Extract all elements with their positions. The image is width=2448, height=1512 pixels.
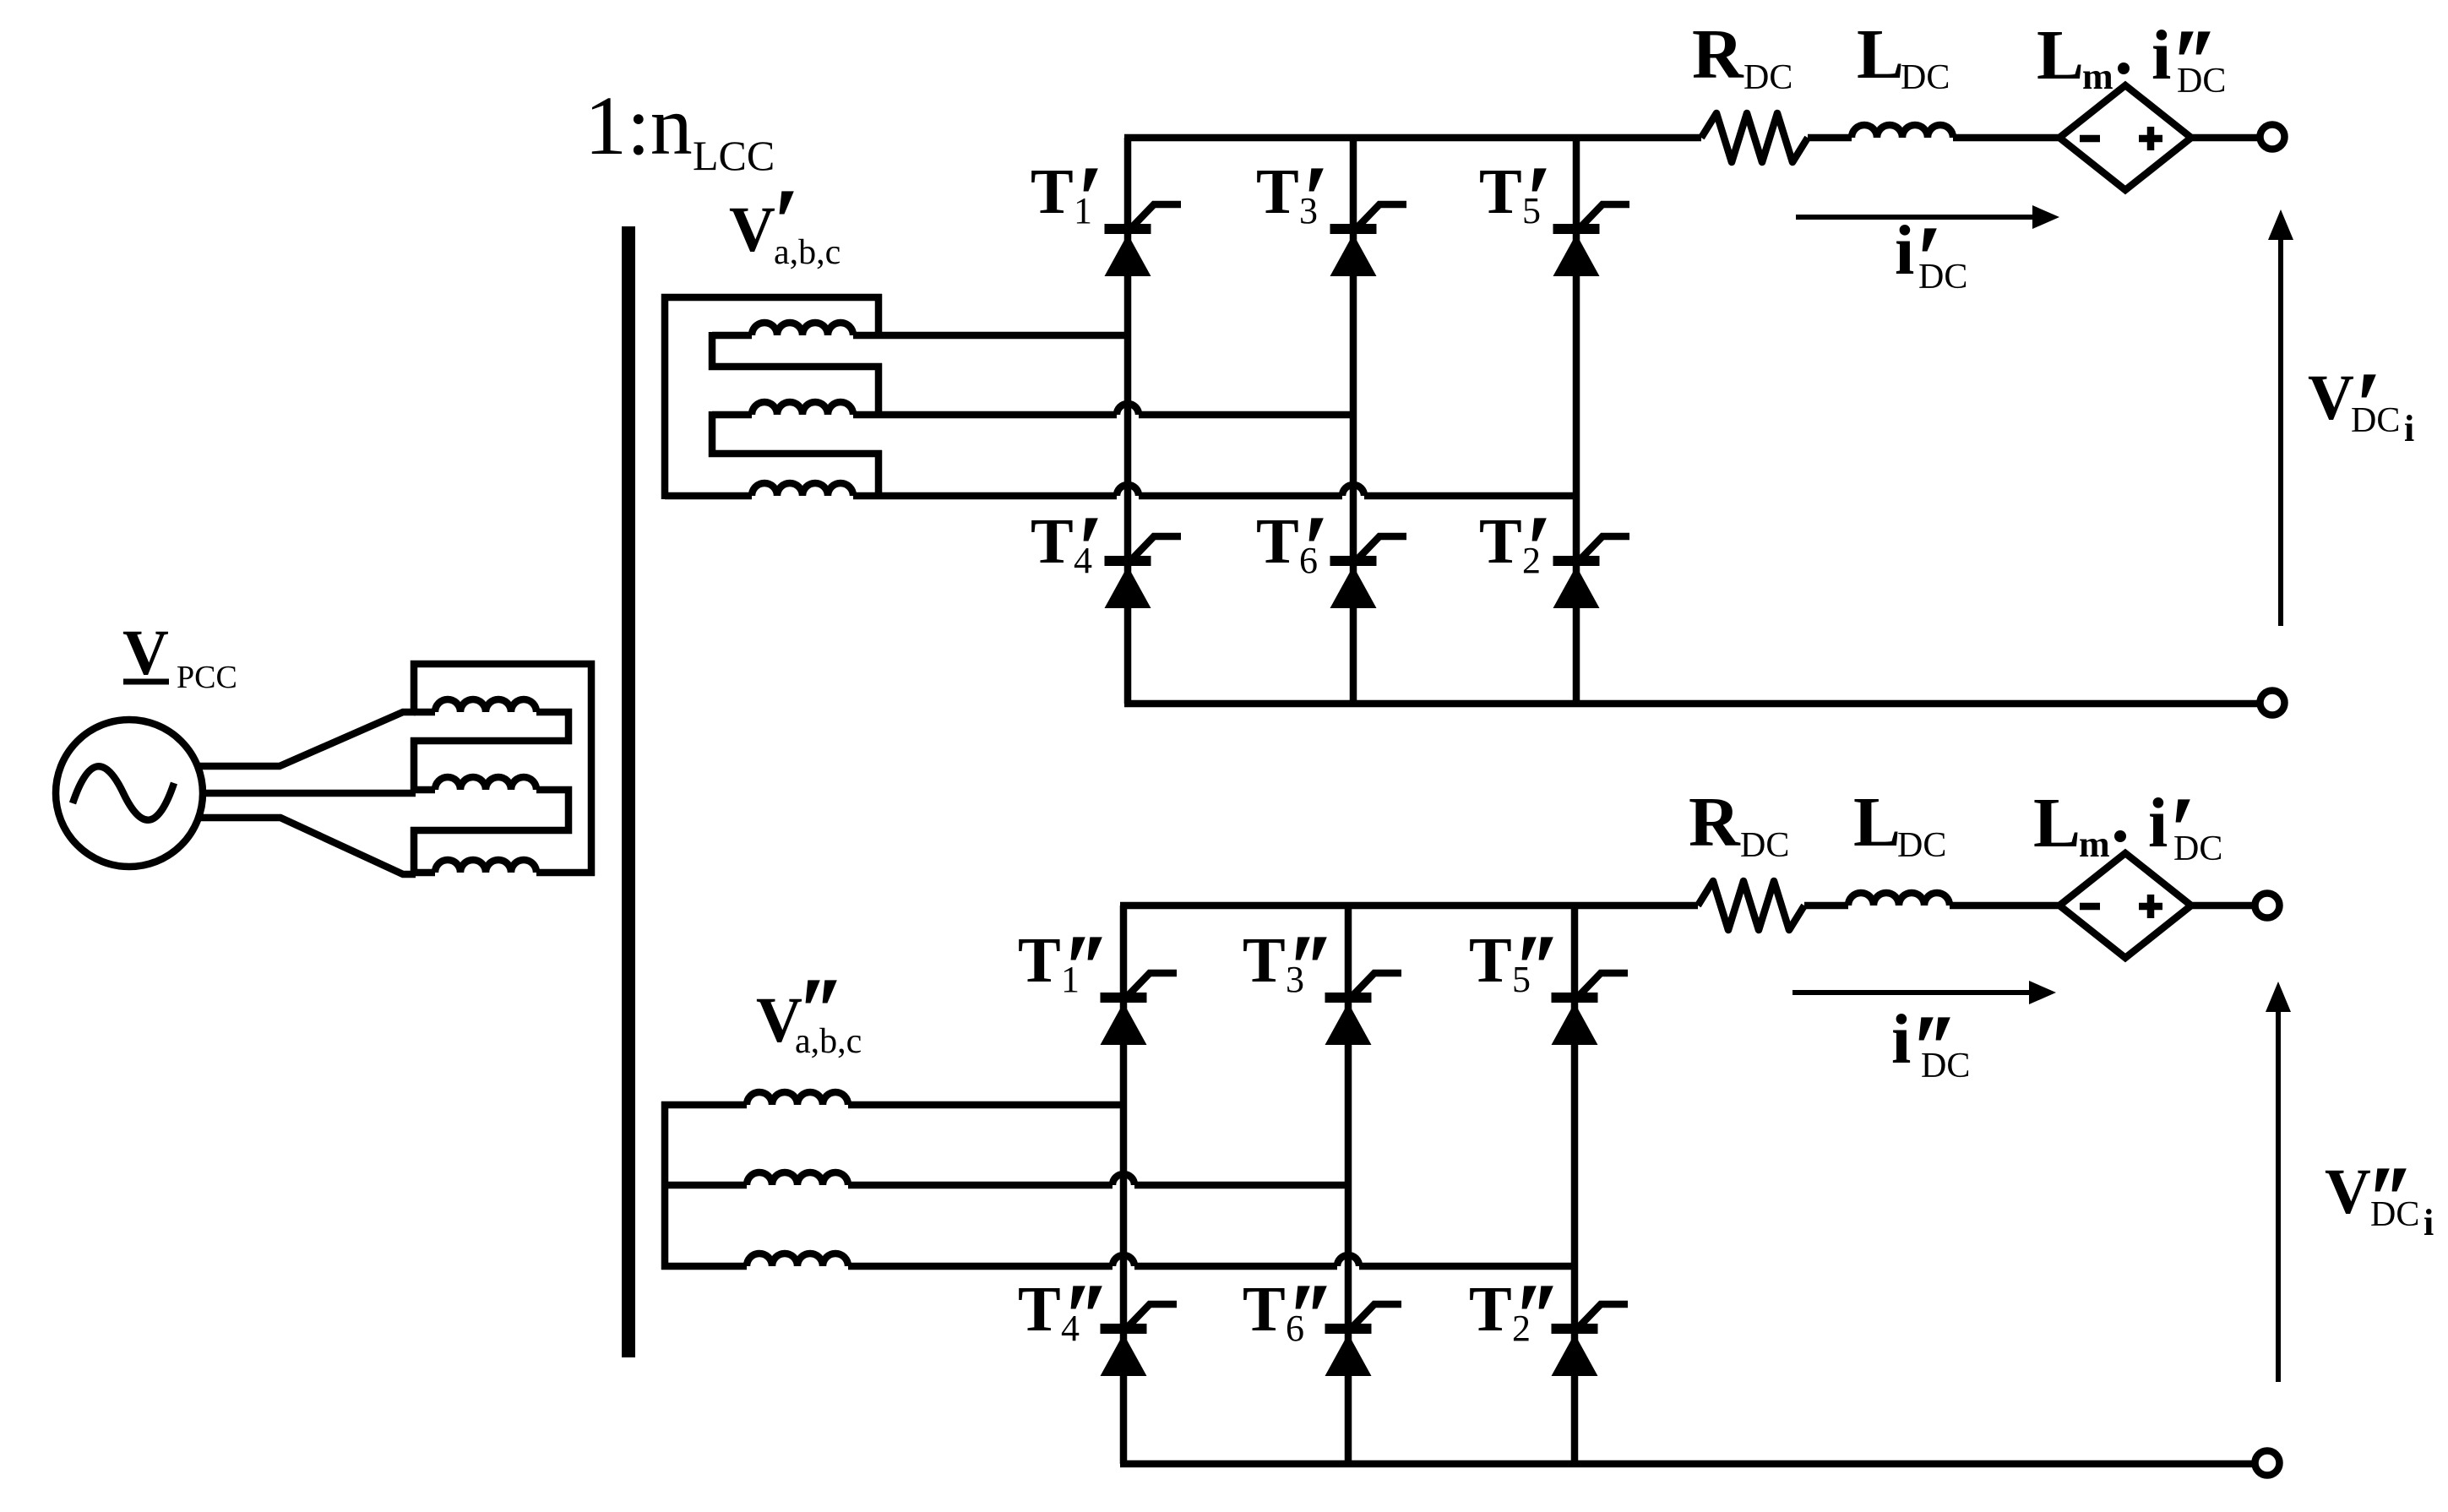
secondary-1 right vertical c — [875, 450, 883, 496]
thyristor T'3 — [1330, 204, 1407, 276]
terminal node circle top-right (bridge 1 +) — [2260, 125, 2285, 150]
svg-text:DC: DC — [2351, 401, 2400, 440]
thyristor T''6 — [1325, 1304, 1402, 1376]
svg-text:3: 3 — [1286, 959, 1304, 1000]
thyristor T'5 — [1553, 204, 1630, 276]
wire diamond to terminal (bridge 2) — [2191, 902, 2255, 910]
svg-text:L: L — [1853, 783, 1901, 862]
AC voltage source V_PCC circle — [56, 720, 203, 867]
sine wave inside source — [73, 766, 174, 819]
wire R_DC to L_DC (bridge 2) — [1804, 902, 1848, 910]
bridge-1 top rail (node DC+) — [1124, 134, 1701, 142]
bridge-2 leg 2 wire — [1345, 906, 1352, 1464]
svg-text:′: ′ — [1532, 915, 1559, 1022]
svg-text:DC: DC — [2173, 829, 2222, 868]
minus sign in diamond (bridge 2) — [2080, 903, 2100, 911]
svg-text:i: i — [1895, 211, 1914, 290]
svg-text:T: T — [1469, 925, 1512, 996]
svg-text:1:n: 1:n — [585, 79, 693, 172]
svg-text:i: i — [2148, 784, 2168, 862]
svg-text:i: i — [1891, 1000, 1911, 1079]
terminal node circle bottom (bridge 2 -) — [2255, 1451, 2280, 1476]
primary coil P3 lead-in — [411, 869, 435, 877]
dependent source L_m*i''_DC diamond (bridge 1) — [2059, 85, 2191, 190]
svg-text:T: T — [1018, 1274, 1061, 1345]
svg-text:DC: DC — [1901, 58, 1950, 97]
secondary-2 coil W1 (phase a) — [747, 1092, 848, 1105]
svg-text:6: 6 — [1286, 1308, 1304, 1349]
secondary-1 frame left/top — [665, 297, 882, 499]
svg-text:DC: DC — [2370, 1195, 2419, 1234]
svg-text:R: R — [1692, 15, 1744, 94]
primary coil P3 (phase c) — [435, 860, 536, 873]
svg-text:V: V — [729, 194, 775, 265]
svg-text:m: m — [2082, 56, 2113, 97]
secondary-1 coil S1 (phase a) — [752, 323, 853, 335]
wire phase c source lead — [199, 818, 416, 874]
svg-text:6: 6 — [1299, 540, 1318, 581]
svg-text:T: T — [1256, 156, 1299, 227]
svg-text:L: L — [2037, 16, 2084, 95]
svg-text:′: ′ — [1081, 1264, 1108, 1371]
thyristor T''4 — [1101, 1304, 1178, 1376]
svg-text:3: 3 — [1299, 190, 1318, 231]
bridge-1 leg 2 wire — [1350, 138, 1357, 704]
svg-text:T: T — [1243, 925, 1286, 996]
secondary-2 coil W2 (phase b) — [747, 1172, 848, 1185]
svg-text:4: 4 — [1074, 540, 1092, 581]
svg-text:V: V — [122, 617, 169, 688]
svg-text:′: ′ — [1306, 1264, 1333, 1371]
primary coil P2 (phase b) — [435, 777, 536, 790]
svg-text:′: ′ — [1532, 1264, 1559, 1371]
svg-text:T: T — [1031, 156, 1074, 227]
svg-text:R: R — [1689, 783, 1741, 862]
bridge-1 bottom rail (node DC-) — [1124, 700, 2260, 708]
inductor L_DC (bridge 2) — [1848, 893, 1950, 906]
svg-text:DC: DC — [2177, 62, 2226, 101]
wire phase a'' to bridge-2 leg 1 — [848, 1101, 1123, 1109]
primary coil P1 step to mid rail — [411, 712, 568, 741]
svg-text:T: T — [1469, 1274, 1512, 1345]
thyristor T'2 — [1553, 536, 1630, 608]
svg-text:a,b,c: a,b,c — [795, 1022, 862, 1061]
svg-text:5: 5 — [1522, 190, 1541, 231]
current arrow i'_DC — [1796, 215, 2037, 220]
svg-text:i: i — [2152, 16, 2171, 95]
secondary-1 coil S2 line left — [712, 411, 752, 419]
wire phase a to bridge-1 leg 1 — [853, 332, 1128, 340]
wire phase a source lead — [199, 712, 416, 766]
secondary-2 coil W3 line left — [661, 1263, 747, 1270]
svg-text:L: L — [2033, 784, 2081, 862]
svg-text:T: T — [1256, 506, 1299, 577]
svg-text:′: ′ — [1081, 915, 1108, 1022]
svg-text:PCC: PCC — [177, 660, 237, 695]
svg-text:2: 2 — [1512, 1308, 1531, 1349]
svg-text:′: ′ — [1306, 915, 1333, 1022]
thyristor T''2 — [1552, 1304, 1629, 1376]
bridge-2 bottom rail (node DC-) — [1120, 1460, 2255, 1468]
plus sign in diamond (bridge 1) — [2139, 135, 2162, 143]
svg-text:T: T — [1018, 925, 1061, 996]
thyristor T'1 — [1105, 204, 1182, 276]
secondary-2 coil W1 line left — [661, 1101, 747, 1109]
plus sign in diamond (bridge 2) — [2139, 903, 2162, 911]
secondary-2 coil W3 (phase c) — [747, 1254, 848, 1266]
transformer core bar (1:n_LCC boundary) — [622, 226, 635, 1357]
secondary-2 coil W2 line left — [661, 1182, 747, 1189]
wire phase c to bridge-1 leg 3 — [853, 492, 1117, 500]
svg-text:a,b,c: a,b,c — [774, 233, 840, 272]
bridge-1 leg 3 wire — [1573, 138, 1580, 704]
svg-text:1: 1 — [1061, 959, 1080, 1000]
svg-text:DC: DC — [1921, 1047, 1970, 1085]
primary coil P1 lead-in — [414, 709, 435, 716]
secondary-1 coil S2 (phase b) — [752, 402, 853, 415]
svg-text:L: L — [1857, 15, 1904, 94]
primary coil P3 line to frame — [536, 869, 595, 877]
thyristor T''3 — [1325, 973, 1402, 1045]
svg-text:DC: DC — [1740, 826, 1789, 865]
svg-text:5: 5 — [1512, 959, 1531, 1000]
wire diamond to terminal (bridge 1) — [2191, 134, 2260, 142]
svg-text:i: i — [2404, 408, 2414, 449]
wire R_DC to L_DC (bridge 1) — [1808, 134, 1852, 142]
svg-text:1: 1 — [1074, 190, 1092, 231]
secondary-1 S2 step — [712, 411, 882, 454]
wire phase b source lead — [199, 790, 416, 797]
wire L_DC to source (bridge 1) — [1953, 134, 2059, 142]
terminal node circle top (bridge 2 +) — [2255, 894, 2280, 918]
svg-text:T: T — [1479, 156, 1522, 227]
terminal node circle bottom (bridge 1 -) — [2260, 691, 2285, 715]
thyristor T'4 — [1105, 536, 1182, 608]
svg-text:DC: DC — [1918, 258, 1967, 296]
svg-text:LCC: LCC — [693, 132, 775, 179]
inductor L_DC (bridge 1) — [1852, 125, 1953, 138]
bridge-2 leg 1 wire — [1120, 906, 1128, 1464]
resistor R_DC (bridge 2) — [1698, 881, 1804, 930]
svg-text:DC: DC — [1744, 58, 1792, 97]
primary coil P2 lead-in — [414, 786, 435, 794]
secondary-1 coil S1 line left — [712, 332, 752, 340]
secondary-2 star point vertical — [661, 1101, 669, 1270]
secondary-1 right vertical a — [875, 294, 883, 335]
primary coil P1 (phase a) — [435, 699, 536, 712]
bridge-1 leg 1 wire — [1124, 138, 1132, 704]
svg-text:T: T — [1479, 506, 1522, 577]
secondary-1 coil S3 (phase c) — [752, 483, 853, 496]
wire phase c'' to bridge-2 leg 3 — [848, 1263, 1112, 1270]
svg-text:4: 4 — [1061, 1308, 1080, 1349]
wire phase b'' to bridge-2 leg 2 — [848, 1182, 1112, 1189]
svg-text:i: i — [2424, 1202, 2434, 1243]
primary winding frame top/right — [414, 664, 591, 876]
voltage arrow V'_DCi — [2278, 235, 2283, 626]
wire phase b to bridge-1 leg 2 — [853, 411, 1117, 419]
svg-text:DC: DC — [1897, 826, 1946, 865]
thyristor T'6 — [1330, 536, 1407, 608]
primary mid vertical 2 — [411, 827, 418, 876]
svg-text:V: V — [2308, 362, 2354, 433]
minus sign in diamond (bridge 1) — [2080, 135, 2100, 143]
dependent source L_m*i'_DC diamond (bridge 2) — [2059, 853, 2191, 958]
primary coil P2 step to mid rail — [411, 790, 568, 830]
svg-text:m: m — [2079, 824, 2110, 865]
wire L_DC to source (bridge 2) — [1950, 902, 2059, 910]
bridge-2 top rail (node DC+) — [1120, 902, 1698, 910]
resistor R_DC (bridge 1) — [1701, 113, 1808, 162]
secondary-1 S1 step — [712, 332, 882, 367]
bridge-2 leg 3 wire — [1571, 906, 1579, 1464]
thyristor T''1 — [1101, 973, 1178, 1045]
current arrow i''_DC — [1792, 990, 2034, 995]
svg-text:T: T — [1243, 1274, 1286, 1345]
secondary-1 right vertical b — [875, 363, 883, 415]
svg-text:T: T — [1031, 506, 1074, 577]
thyristor T''5 — [1552, 973, 1629, 1045]
svg-text:V: V — [2325, 1156, 2371, 1227]
secondary-1 coil S3 line left — [665, 492, 752, 500]
primary mid vertical 1 — [411, 737, 418, 793]
svg-text:2: 2 — [1522, 540, 1541, 581]
voltage arrow V''_DCi — [2276, 1007, 2281, 1382]
